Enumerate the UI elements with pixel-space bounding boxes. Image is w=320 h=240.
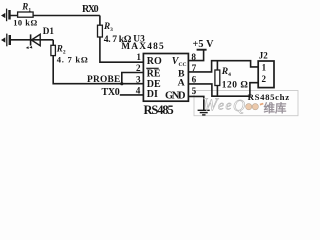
junction xyxy=(120,82,123,85)
svg-text:1: 1 xyxy=(262,63,267,73)
svg-text:2: 2 xyxy=(261,74,266,84)
svg-text:5: 5 xyxy=(192,86,197,96)
svg-text:GND: GND xyxy=(165,91,186,102)
resistor R4 xyxy=(216,61,218,70)
connector J2 xyxy=(258,61,274,88)
svg-text:PROBE: PROBE xyxy=(87,75,120,85)
wire bracket RE/DE xyxy=(122,73,144,84)
svg-text:6: 6 xyxy=(192,74,197,84)
svg-text:3: 3 xyxy=(136,74,141,84)
wire R2 down and right (PROBE net) xyxy=(53,56,143,84)
input connector symbol (row 1) xyxy=(2,9,10,22)
wire pin5 to ground xyxy=(188,96,203,110)
svg-text:D1: D1 xyxy=(43,26,55,36)
watermark box xyxy=(194,91,298,116)
svg-text:120 Ω: 120 Ω xyxy=(222,80,249,90)
wire A net xyxy=(188,83,258,97)
svg-text:RO: RO xyxy=(147,56,162,67)
svg-text:A: A xyxy=(178,77,185,88)
svg-text:RX0: RX0 xyxy=(82,4,99,15)
svg-text:RS485: RS485 xyxy=(144,103,174,117)
resistor R2 xyxy=(51,45,56,55)
D1 emission arrows xyxy=(29,46,32,49)
svg-text:DI: DI xyxy=(147,89,158,100)
wire pin8 to +5V xyxy=(188,50,203,61)
wire B net xyxy=(188,61,258,72)
svg-text:维库: 维库 xyxy=(264,101,287,115)
svg-text:4. 7 kΩ: 4. 7 kΩ xyxy=(57,54,88,64)
power +5V xyxy=(197,49,207,51)
svg-text:10 kΩ: 10 kΩ xyxy=(13,18,37,27)
diode D1 (photodiode) xyxy=(30,34,32,45)
svg-text:2: 2 xyxy=(136,63,141,73)
svg-text:e: e xyxy=(218,98,224,113)
ground xyxy=(198,110,210,115)
svg-text:J2: J2 xyxy=(259,50,269,60)
wire D1 to R2 corner xyxy=(52,40,54,46)
svg-text:RS485chz: RS485chz xyxy=(248,92,290,102)
svg-text:4: 4 xyxy=(136,85,141,95)
watermark WeeQoo xyxy=(203,94,264,115)
wire RX0 vertical down to pin 1 xyxy=(100,16,143,63)
svg-text:e: e xyxy=(226,98,232,113)
svg-text:+5 V: +5 V xyxy=(193,39,215,50)
svg-text:1: 1 xyxy=(136,52,141,62)
svg-text:TX0: TX0 xyxy=(102,87,120,98)
svg-text:MAX485: MAX485 xyxy=(121,42,164,52)
resistor R3 xyxy=(98,25,103,37)
svg-text:W: W xyxy=(203,94,220,114)
wire row2 xyxy=(11,39,53,41)
wire TX0 to pin 4 xyxy=(120,94,144,96)
wire row1 xyxy=(11,15,100,17)
svg-text:RE: RE xyxy=(147,68,161,79)
input connector symbol (row 2) xyxy=(2,34,10,47)
resistor R1 xyxy=(18,12,33,17)
svg-text:Q: Q xyxy=(233,96,245,115)
IC U3 MAX485 body xyxy=(143,54,188,102)
